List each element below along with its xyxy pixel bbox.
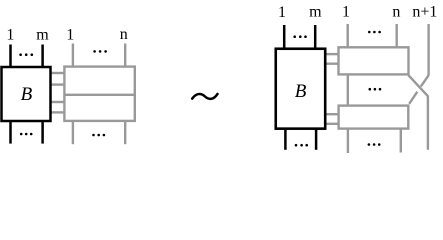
svg-text:n: n	[120, 26, 128, 43]
svg-text:m: m	[309, 4, 322, 21]
svg-text:n: n	[392, 3, 400, 20]
svg-text:m: m	[36, 26, 49, 43]
svg-text:1: 1	[66, 26, 74, 43]
svg-text:n+1: n+1	[412, 3, 437, 20]
svg-text:B: B	[295, 81, 307, 102]
svg-text:1: 1	[342, 3, 350, 20]
svg-text:B: B	[21, 84, 33, 105]
svg-text:1: 1	[6, 27, 14, 44]
svg-text:1: 1	[278, 4, 286, 21]
